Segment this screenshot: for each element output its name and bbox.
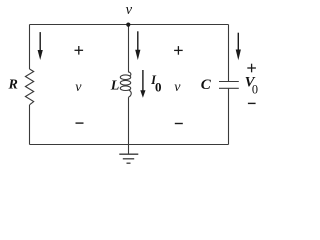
minus sign middle cell xyxy=(175,123,183,125)
minus sign left cell xyxy=(76,122,84,124)
svg-text:C: C xyxy=(201,77,212,93)
ground xyxy=(119,145,138,164)
wire top horizontal xyxy=(30,24,229,26)
svg-text:v: v xyxy=(174,80,181,95)
resistor R xyxy=(25,69,33,105)
svg-text:v: v xyxy=(126,2,133,18)
svg-text:v: v xyxy=(75,80,82,95)
current arrow I0 (inductor current) xyxy=(140,70,145,98)
current arrow left branch xyxy=(38,32,43,60)
svg-text:0: 0 xyxy=(155,79,162,94)
current arrow right branch xyxy=(236,33,241,61)
wire middle branch bottom xyxy=(128,97,130,144)
svg-text:R: R xyxy=(8,78,18,93)
capacitor C xyxy=(219,82,239,89)
plus sign middle cell xyxy=(174,46,183,55)
inductor L xyxy=(120,72,131,97)
plus sign right (V0 polarity) xyxy=(247,64,256,73)
wire right branch bottom xyxy=(228,88,230,144)
label V0 xyxy=(245,75,258,97)
wire middle branch top xyxy=(128,25,130,73)
wire left branch top xyxy=(29,25,31,70)
wire left branch bottom xyxy=(29,105,31,145)
label I0 xyxy=(150,73,161,94)
svg-text:0: 0 xyxy=(252,82,258,96)
plus sign left cell xyxy=(75,46,84,55)
current arrow middle branch xyxy=(135,31,140,60)
node v dot xyxy=(126,23,130,27)
minus sign right (V0 polarity) xyxy=(248,102,256,104)
wire right branch top xyxy=(228,25,230,82)
svg-text:L: L xyxy=(110,79,120,94)
wire bottom horizontal xyxy=(30,144,229,146)
